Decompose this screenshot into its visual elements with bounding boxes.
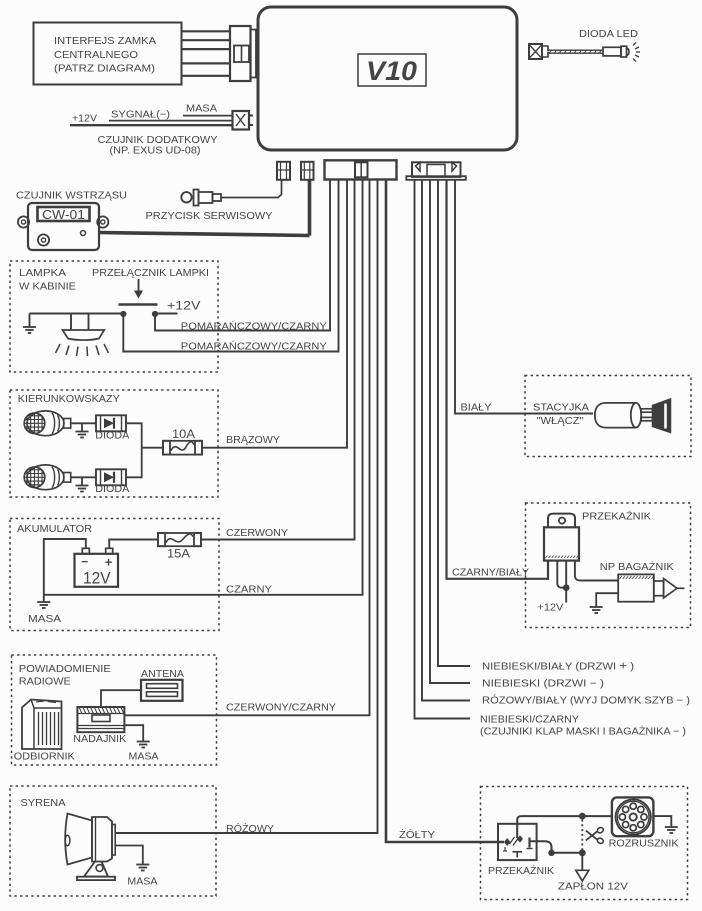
svg-text:CZARNY/BIAŁY: CZARNY/BIAŁY (452, 568, 529, 579)
dashed box SYRENA (10, 786, 216, 896)
svg-text:CENTRALNEGO: CENTRALNEGO (54, 50, 138, 61)
svg-text:NIEBIESKI (DRZWI − ): NIEBIESKI (DRZWI − ) (482, 679, 604, 690)
wire L6 CZERWONY/CZARNY (124, 180, 369, 715)
wire +12V (70, 124, 233, 126)
turn signal bulb 2 (24, 465, 70, 490)
scissors (586, 827, 604, 845)
central-lock interface module (34, 23, 182, 85)
svg-text:CZUJNIK DODATKOWY: CZUJNIK DODATKOWY (98, 135, 218, 146)
ground bulb1 (76, 423, 89, 437)
svg-text:ANTENA: ANTENA (141, 669, 184, 680)
svg-text:RÓŻOWY: RÓŻOWY (226, 822, 274, 835)
wire to fuse 10A (142, 447, 163, 449)
wire L5 CZARNY (44, 180, 363, 595)
ground MASA battery (37, 601, 50, 603)
wire siren ground (115, 846, 143, 865)
svg-text:POMARAŃCZOWY/CZARNY: POMARAŃCZOWY/CZARNY (181, 320, 327, 333)
svg-text:DIODA: DIODA (95, 431, 129, 442)
svg-text:+12V: +12V (537, 603, 563, 614)
svg-text:CZERWONY: CZERWONY (226, 528, 288, 539)
svg-text:AKUMULATOR: AKUMULATOR (17, 524, 92, 535)
dashed box AKUMULATOR (10, 519, 219, 631)
interface connector plug (230, 26, 256, 81)
transmitter NADAJNIK (77, 707, 124, 732)
wire diodes join (126, 423, 142, 477)
wire battery minus to ground (44, 539, 86, 602)
V10 label (358, 54, 426, 86)
svg-text:15A: 15A (167, 549, 190, 561)
+12V stub (155, 313, 178, 315)
wire bulb1 to diode1 (70, 422, 96, 424)
svg-text:PRZEKAŹNIK: PRZEKAŹNIK (582, 510, 651, 523)
wire L8 ZOLTY (thick) (386, 180, 504, 842)
main connector 1 (325, 160, 397, 179)
wire R2 ROZOWY/BIALY (422, 180, 470, 701)
diode D1 (96, 415, 126, 431)
wire relay leg4 to actuator (575, 561, 618, 581)
svg-text:NADAJNIK: NADAJNIK (73, 734, 126, 745)
ground lamp (23, 314, 36, 334)
svg-text:LAMPKA: LAMPKA (19, 268, 66, 279)
wire R5 CZARNY/BIALY (447, 180, 549, 579)
svg-text:SYGNAŁ(−): SYGNAŁ(−) (111, 110, 170, 121)
svg-text:ŻÓŁTY: ŻÓŁTY (399, 828, 435, 841)
svg-text:POMARAŃCZOWY/CZARNY: POMARAŃCZOWY/CZARNY (181, 340, 327, 353)
svg-text:PRZYCISK SERWISOWY: PRZYCISK SERWISOWY (146, 211, 273, 222)
svg-text:DIODA LED: DIODA LED (579, 29, 638, 40)
siren horn (65, 814, 115, 865)
svg-text:+: + (105, 555, 113, 570)
ground MASA siren (136, 864, 149, 866)
fuse F1 10A (163, 441, 202, 455)
svg-text:(CZUJNIKI KLAP MASKI I BAGAŻNI: (CZUJNIKI KLAP MASKI I BAGAŻNIKA − ) (480, 725, 686, 738)
junction dot relay (563, 584, 570, 591)
LED connector plug (529, 44, 548, 59)
ignition key head (653, 399, 671, 433)
wire switch to lamp and ground (30, 313, 124, 315)
wire bulb2 to diode2 (70, 476, 96, 478)
arrow to switch (134, 279, 143, 299)
svg-text:ODBIORNIK: ODBIORNIK (14, 752, 75, 763)
ignition key cylinder (595, 403, 653, 428)
battery 12V (75, 548, 119, 587)
starter ROZRUSZNIK (612, 797, 654, 836)
svg-text:−: − (81, 555, 88, 569)
svg-text:12V: 12V (83, 569, 111, 588)
ground starter (665, 826, 678, 828)
svg-text:CZARNY: CZARNY (226, 585, 272, 596)
wire R3 NIEBIESKI (430, 180, 470, 683)
wire relay to +12V (565, 588, 567, 603)
wire L4 CZERWONY (201, 180, 355, 540)
svg-text:(PATRZ DIAGRAM): (PATRZ DIAGRAM) (54, 64, 155, 75)
wire R1 NIEBIESKI/CZARNY (415, 180, 471, 719)
svg-text:RADIOWE: RADIOWE (19, 677, 71, 688)
svg-text:PRZEKAŹNIK: PRZEKAŹNIK (488, 864, 554, 877)
wire actuator ground (596, 593, 618, 607)
diode D2 (96, 469, 126, 485)
wire relay K2 contact to ignition (531, 841, 583, 853)
dashed box LAMPKA W KABINIE (10, 261, 218, 372)
svg-text:ROZRUSZNIK: ROZRUSZNIK (609, 839, 679, 850)
wire battery plus to fuse (109, 540, 158, 549)
relay K2 box (498, 824, 537, 860)
svg-text:NP BAGAŻNIK: NP BAGAŻNIK (600, 560, 674, 573)
central alarm unit V10 (258, 7, 517, 150)
service button (181, 190, 221, 206)
svg-text:+12V: +12V (167, 301, 201, 313)
wire R4 NIEBIESKI/BIALY (438, 180, 470, 666)
svg-text:POWIADOMIENIE: POWIADOMIENIE (19, 664, 111, 675)
main connector 2 (406, 162, 466, 180)
svg-text:10A: 10A (172, 429, 195, 441)
svg-text:"WŁĄCZ": "WŁĄCZ" (537, 416, 584, 427)
wire antenna to transmitter (101, 690, 141, 707)
wire relay K2 up and right to starter (517, 816, 613, 838)
antenna (141, 680, 183, 701)
wire R6 BIALY (455, 180, 593, 414)
small connector A (277, 162, 290, 180)
svg-text:ZAPŁON 12V: ZAPŁON 12V (558, 882, 628, 893)
dashed box STACYJKA (525, 376, 691, 457)
dashed box POWIADOMIENIE RADIOWE (12, 655, 217, 765)
svg-text:(NP. EXUS UD-08): (NP. EXUS UD-08) (110, 146, 201, 157)
lamp switch (119, 305, 159, 318)
shock sensor CW-01 body (18, 203, 109, 250)
svg-text:+12V: +12V (72, 114, 97, 125)
LED rays (633, 43, 640, 62)
wire L7 ROZOWY (115, 180, 378, 833)
dashed box relay/trunk (526, 503, 691, 628)
svg-text:RÓZOWY/BIAŁY (WYJ DOMYK SZY: RÓZOWY/BIAŁY (WYJ DOMYK SZYB − ) (482, 694, 690, 707)
svg-text:BRĄZOWY: BRĄZOWY (226, 435, 280, 446)
relay K2 internals (503, 835, 533, 857)
svg-text:SYRENA: SYRENA (21, 798, 66, 809)
svg-text:MASA: MASA (186, 104, 217, 115)
svg-text:MASA: MASA (127, 877, 157, 888)
junction dot ignition (579, 849, 586, 856)
small connector B (301, 162, 314, 180)
ground bulb2 (76, 477, 89, 491)
wire to ZAPLON arrow (581, 853, 583, 871)
dashed box starter relay (481, 787, 688, 900)
svg-text:V10: V10 (366, 56, 417, 86)
svg-text:CW-01: CW-01 (42, 208, 85, 222)
wire service button to unit (221, 180, 282, 198)
wire L1 POMARANCZOWY/CZARNY 1 (155, 180, 330, 331)
relay U1 (TO-220 style) (544, 514, 579, 561)
junction dot top (579, 813, 586, 820)
receiver ODBIORNIK (22, 700, 62, 750)
svg-text:INTERFEJS ZAMKA: INTERFEJS ZAMKA (54, 36, 156, 47)
wire starter to ground (653, 816, 671, 827)
svg-text:NIEBIESKI/CZARNY: NIEBIESKI/CZARNY (480, 715, 579, 726)
dashed cut line (581, 820, 583, 850)
svg-text:DIODA: DIODA (95, 484, 129, 495)
siren foot (77, 862, 115, 881)
svg-text:MASA: MASA (28, 614, 61, 625)
LED body (603, 46, 629, 57)
relay legs (557, 561, 566, 588)
wire L3 BRAZOWY (202, 180, 347, 448)
dashed box KIERUNKOWSKAZY (10, 390, 218, 497)
turn signal bulb 1 (24, 411, 70, 436)
wires interface to connector (182, 31, 232, 76)
svg-text:STACYJKA: STACYJKA (533, 403, 589, 414)
svg-text:KIERUNKOWSKAZY: KIERUNKOWSKAZY (18, 394, 120, 405)
wire SYGNAL (109, 120, 233, 122)
svg-text:W KABINIE: W KABINIE (19, 282, 76, 293)
svg-text:NIEBIESKI/BIAŁY (DRZWI + ): NIEBIESKI/BIAŁY (DRZWI + ) (482, 659, 634, 673)
trunk actuator (618, 574, 684, 601)
ground actuator (590, 606, 603, 608)
ZAPLON arrow (576, 870, 589, 881)
wire MASA (183, 115, 233, 117)
lamp rays (56, 344, 109, 356)
dome lamp (63, 314, 105, 341)
svg-text:CZERWONY/CZARNY: CZERWONY/CZARNY (226, 703, 336, 714)
ground MASA transmitter (137, 741, 150, 743)
LED cable (548, 50, 603, 53)
svg-text:CZUJNIK WSTRZĄSU: CZUJNIK WSTRZĄSU (16, 191, 127, 202)
svg-text:PRZEŁĄCZNIK LAMPKI: PRZEŁĄCZNIK LAMPKI (92, 268, 209, 279)
wire transmitter ground (124, 725, 143, 741)
svg-text:MASA: MASA (129, 752, 159, 763)
wire shock sensor to unit (thick) (99, 233, 310, 236)
wire L2 POMARANCZOWY/CZARNY 2 (123, 180, 338, 352)
fuse F2 15A (158, 533, 201, 546)
junction dot contact (548, 850, 554, 856)
aux sensor connector (233, 111, 254, 130)
svg-text:BIAŁY: BIAŁY (461, 403, 492, 414)
